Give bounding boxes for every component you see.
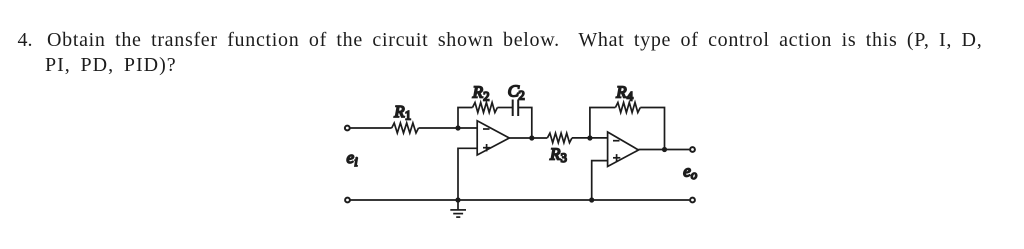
resistor R4 — [615, 103, 640, 113]
node A (junction dot, inverting input of U1) — [455, 125, 460, 130]
node B (U1 output junction dot) — [529, 135, 534, 140]
wire: U1 plus input down to ground rail — [458, 148, 477, 199]
label R3 — [549, 144, 567, 165]
wire: input terminal to R1 — [351, 127, 392, 129]
input terminal ei (top-left open circle) — [345, 126, 350, 131]
bottom-left terminal (open circle) — [345, 198, 350, 203]
svg-text:1: 1 — [405, 109, 411, 123]
label eo — [683, 162, 697, 183]
svg-text:R: R — [615, 83, 627, 102]
label C2 — [508, 82, 525, 103]
wire: R2 to C2 — [497, 107, 512, 109]
svg-text:2: 2 — [519, 88, 525, 102]
resistor R1 — [392, 123, 419, 133]
label R2 — [472, 83, 490, 104]
node E (ground rail junction dot under U1) — [455, 197, 460, 202]
node F (ground rail junction dot under U2) — [589, 197, 594, 202]
wire: node C up to R4 feedback branch — [590, 108, 616, 139]
node D (U2 output junction dot) — [662, 147, 667, 152]
output terminal eo (top-right open circle) — [690, 147, 695, 152]
problem text line 1 — [18, 29, 33, 52]
wire: R1 to node A — [419, 127, 478, 129]
label ei — [347, 148, 359, 169]
svg-text:o: o — [691, 168, 697, 182]
wire: U2 output to output terminal — [639, 149, 690, 151]
svg-text:2: 2 — [483, 90, 489, 104]
U2 minus pin mark — [613, 140, 620, 142]
wire: node A up to feedback branch — [458, 108, 473, 129]
label R1 — [393, 102, 411, 123]
U1 plus pin mark — [483, 144, 490, 151]
ground — [450, 200, 466, 217]
svg-text:R: R — [393, 102, 405, 121]
svg-text:i: i — [354, 155, 358, 169]
node C (junction dot, inverting input of U2) — [587, 135, 592, 140]
wire: R3 to U2 inverting input — [572, 137, 608, 139]
wire: R4 down to U2 output node — [640, 108, 664, 150]
svg-text:4: 4 — [627, 90, 634, 104]
capacitor C2 — [513, 100, 519, 117]
resistor R2 — [473, 103, 498, 113]
wire: U2 plus input down to ground rail — [592, 161, 608, 200]
svg-text:3: 3 — [561, 151, 567, 165]
svg-text:R: R — [549, 144, 561, 163]
U2 plus pin mark — [613, 154, 620, 161]
resistor R3 — [547, 133, 572, 143]
op-amp U2 — [608, 132, 639, 167]
bottom rail wire — [351, 199, 690, 201]
svg-text:R: R — [472, 83, 484, 102]
wire: U1 output to R3 — [509, 137, 547, 139]
label R4 — [615, 83, 634, 104]
op-amp U1 — [477, 121, 509, 155]
problem text line 2 — [45, 54, 177, 77]
U1 minus pin mark — [483, 128, 490, 130]
wire: C2 down to U1 output node — [518, 108, 532, 139]
bottom-right terminal (open circle) — [690, 198, 695, 203]
